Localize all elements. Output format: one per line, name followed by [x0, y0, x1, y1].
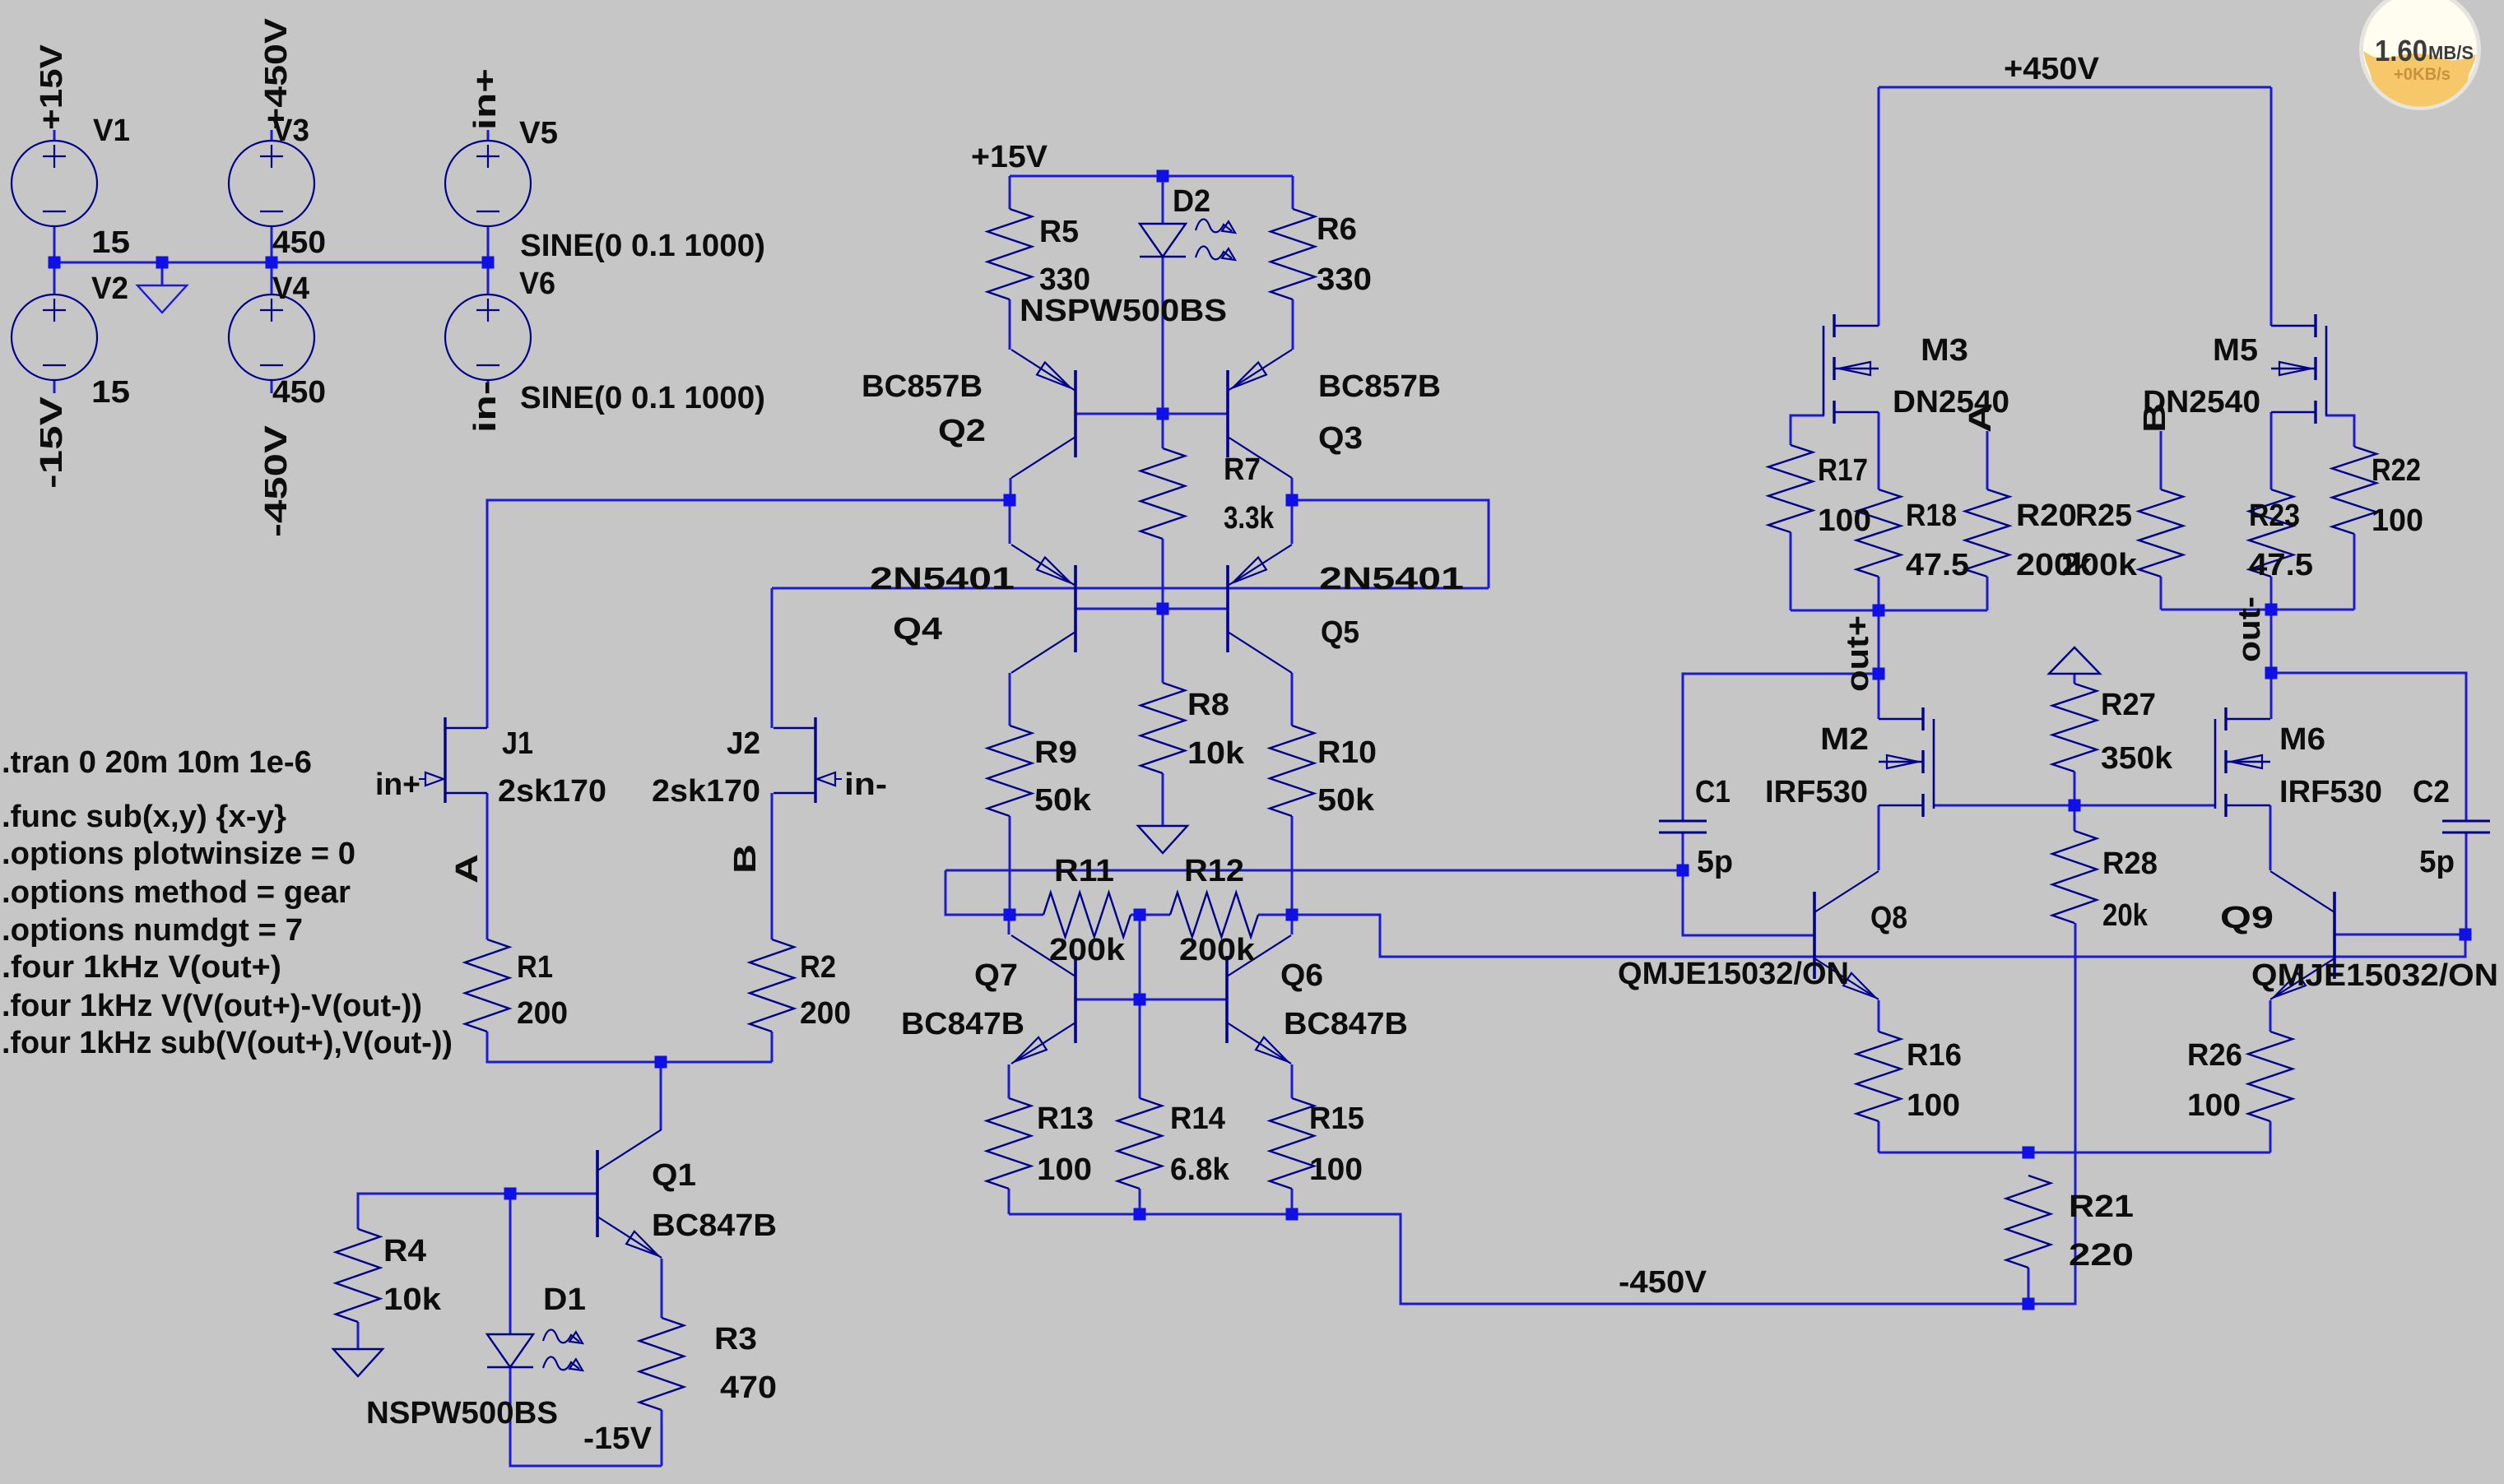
- wire tail to Q1 collector: [660, 1062, 662, 1129]
- wire R25 bottom: [2160, 577, 2163, 610]
- MOSFET M2 IRF530: [1879, 707, 1934, 817]
- svg-text:+0KB/s: +0KB/s: [2394, 65, 2451, 84]
- resistor R4 10k: [336, 1229, 380, 1322]
- junction R15 rail: [1286, 1208, 1298, 1221]
- svg-text:BC857B: BC857B: [862, 369, 983, 404]
- junction C2 drive: [2460, 929, 2472, 941]
- svg-text:NSPW500BS: NSPW500BS: [366, 1396, 558, 1431]
- svg-text:R7: R7: [1224, 452, 1261, 487]
- svg-text:6.8k: 6.8k: [1170, 1152, 1230, 1187]
- wire R7 leads: [1162, 414, 1164, 448]
- capacitor C1 5p: [1659, 821, 1707, 832]
- junction Q6 Q7 base node: [1134, 994, 1146, 1006]
- svg-text:BC857B: BC857B: [1318, 369, 1441, 404]
- svg-text:Q8: Q8: [1870, 901, 1907, 935]
- junction cascode node B side: [1286, 494, 1298, 507]
- wire R11 R12 mid leads: [1131, 914, 1170, 916]
- svg-text:350k: 350k: [2101, 741, 2173, 776]
- voltage source V6: [445, 294, 531, 380]
- svg-text:1.60: 1.60: [2375, 34, 2427, 67]
- svg-text:R6: R6: [1317, 212, 1357, 247]
- junction R12 R10: [1286, 909, 1298, 921]
- resistor R5 330: [987, 209, 1032, 299]
- wire Q6 base: [1140, 999, 1227, 1001]
- ground at V bus: [137, 285, 187, 313]
- svg-text:2sk170: 2sk170: [498, 774, 606, 809]
- junction cascode node A side: [1004, 494, 1016, 507]
- wire M3 gate to R17: [1791, 415, 1824, 445]
- junction R21 top: [2023, 1147, 2035, 1159]
- transistor Q6 BC847B: [1227, 935, 1291, 1064]
- svg-text:10k: 10k: [383, 1282, 442, 1317]
- junction R21 bottom: [2023, 1298, 2035, 1310]
- voltage source V1: [12, 141, 97, 226]
- svg-text:M3: M3: [1921, 333, 1968, 368]
- svg-text:R10: R10: [1317, 735, 1377, 770]
- junction Q1 base node: [504, 1188, 517, 1200]
- svg-text:V5: V5: [519, 116, 558, 151]
- resistor R14 6.8k: [1117, 1098, 1162, 1189]
- wire R28 top lead: [2074, 805, 2076, 831]
- wire left row bottom: [1791, 610, 1987, 612]
- transistor Q3 BC857B: [1228, 350, 1292, 478]
- LED D1 NSPW500BS: [487, 1329, 583, 1370]
- transistor Q5 2N5401: [1228, 545, 1292, 673]
- svg-text:R25: R25: [2075, 499, 2132, 533]
- svg-text:200: 200: [517, 996, 568, 1031]
- svg-text:R11: R11: [1054, 854, 1114, 888]
- wire Q1 emitter to R3: [661, 1259, 663, 1318]
- svg-text:Q1: Q1: [652, 1158, 696, 1193]
- svg-text:R13: R13: [1037, 1101, 1094, 1136]
- JFET J1 2sk170: [445, 717, 487, 803]
- svg-text:R9: R9: [1034, 735, 1077, 770]
- svg-text:Q5: Q5: [1321, 615, 1359, 650]
- resistor R25 200k: [2139, 489, 2183, 577]
- wire J2 drain up: [771, 588, 773, 728]
- svg-text:R5: R5: [1039, 215, 1079, 249]
- wire R22 bottom: [2353, 534, 2356, 610]
- svg-text:D2: D2: [1173, 184, 1210, 219]
- svg-text:V3: V3: [272, 114, 309, 148]
- svg-text:.options plotwinsize = 0: .options plotwinsize = 0: [2, 837, 355, 871]
- junction R27 R28 gates: [2069, 800, 2081, 812]
- svg-text:.four 1kHz V(V(out+)-V(out-)): .four 1kHz V(V(out+)-V(out-)): [2, 989, 422, 1023]
- svg-text:15: 15: [91, 375, 130, 410]
- wire J1 source to R1: [486, 793, 489, 939]
- transistor Q4 2N5401: [1011, 545, 1075, 673]
- wire out+ to C1: [1683, 674, 1879, 821]
- wire V1 top stub: [53, 130, 56, 141]
- wire bottom mid rail: [1009, 923, 2075, 1304]
- svg-text:B: B: [728, 844, 763, 874]
- svg-text:3.3k: 3.3k: [1224, 501, 1275, 536]
- wire R23 bottom: [2270, 577, 2273, 610]
- svg-text:V1: V1: [93, 114, 130, 148]
- resistor R23 47.5: [2249, 489, 2293, 577]
- wire Q5 emitter lead: [1291, 500, 1294, 544]
- svg-text:B: B: [2138, 403, 2172, 433]
- wire R27 bottom lead: [2074, 772, 2076, 805]
- svg-text:in+: in+: [375, 768, 420, 802]
- wire Q2 collector lead: [1010, 478, 1012, 500]
- wire row to Q8 corner: [1292, 915, 2465, 957]
- wire D2 anode: [1162, 176, 1164, 224]
- svg-text:-15V: -15V: [35, 396, 69, 489]
- svg-text:Q6: Q6: [1280, 958, 1323, 993]
- wire long C1 drive wire: [945, 870, 1683, 872]
- resistor R9 50k: [987, 726, 1032, 816]
- MOSFET M5 DN2540: [2271, 314, 2326, 424]
- svg-text:R8: R8: [1187, 688, 1229, 722]
- junction R7 R8 base node: [1157, 603, 1169, 615]
- resistor R6 330: [1271, 209, 1315, 299]
- svg-text:47.5: 47.5: [1906, 548, 1969, 582]
- wire B flag to R25: [2160, 431, 2163, 489]
- junction V5-V6: [482, 257, 495, 269]
- wire V4 top lead: [271, 262, 273, 294]
- junction R13 rail: [1134, 1208, 1146, 1221]
- transistor Q1 BC847B: [597, 1129, 662, 1258]
- wire Q2 base: [1075, 413, 1163, 415]
- wire D2 cathode to base node: [1162, 257, 1164, 414]
- wire out- drop: [2270, 610, 2273, 673]
- resistor R3 470: [639, 1318, 684, 1410]
- svg-text:R20: R20: [2016, 499, 2077, 533]
- LED D2 NSPW500BS: [1140, 219, 1235, 260]
- input port in+ arrow: [419, 772, 444, 786]
- wire +15V rail: [1010, 175, 1293, 178]
- svg-text:330: 330: [1317, 262, 1372, 297]
- svg-text:200k: 200k: [2061, 548, 2138, 582]
- wire J1 drain to cascode node: [487, 500, 1010, 728]
- svg-text:.tran 0 20m 10m 1e-6: .tran 0 20m 10m 1e-6: [2, 745, 312, 780]
- svg-text:C2: C2: [2413, 775, 2450, 809]
- resistor R16 100: [1856, 1032, 1901, 1121]
- resistor R21 220: [2006, 1176, 2051, 1268]
- svg-text:5p: 5p: [2419, 845, 2455, 879]
- wire Q8 emitter to R16: [1878, 1000, 1880, 1032]
- svg-text:-15V: -15V: [583, 1421, 653, 1456]
- svg-text:in-: in-: [468, 381, 503, 433]
- JFET J2 2sk170: [773, 717, 815, 803]
- junction V1-V2: [49, 257, 61, 269]
- wire M5 drain: [2270, 87, 2273, 326]
- wire C2 to Q9 base: [2334, 934, 2465, 936]
- svg-text:R27: R27: [2101, 688, 2156, 722]
- resistor R7 3.3k: [1141, 448, 1185, 539]
- svg-text:D1: D1: [543, 1282, 586, 1317]
- svg-text:NSPW500BS: NSPW500BS: [1020, 294, 1227, 328]
- wire R8 top lead: [1162, 609, 1164, 683]
- junction Q2 Q3 base node: [1157, 408, 1169, 420]
- wire C1 to Q8 base: [1683, 870, 1814, 935]
- svg-text:R26: R26: [2187, 1038, 2242, 1073]
- svg-text:100: 100: [1818, 503, 1871, 538]
- svg-text:+15V: +15V: [971, 140, 1048, 174]
- svg-text:V4: V4: [272, 271, 309, 306]
- resistor R2 200: [750, 939, 794, 1032]
- svg-text:Q4: Q4: [893, 612, 942, 647]
- wire out+ drop: [1878, 610, 1880, 674]
- transistor Q2 BC857B: [1011, 350, 1075, 478]
- resistor R8 10k: [1141, 683, 1185, 773]
- svg-text:+15V: +15V: [35, 44, 69, 130]
- junction R9 R11: [1004, 909, 1016, 921]
- voltage source V5: [445, 141, 531, 226]
- wire V1 bottom lead: [53, 226, 56, 262]
- wire Q6 emitter to R15: [1291, 1064, 1294, 1098]
- svg-text:in+: in+: [468, 68, 503, 130]
- wire R9 bottom lead: [1009, 816, 1011, 915]
- wire R1 bottom: [487, 1032, 772, 1062]
- svg-text:SINE(0 0.1 1000): SINE(0 0.1 1000): [520, 229, 765, 263]
- svg-text:M2: M2: [1820, 722, 1869, 757]
- input port in- arrow: [817, 772, 842, 786]
- wire R10 bottom lead: [1291, 816, 1294, 915]
- svg-text:100: 100: [1907, 1088, 1960, 1123]
- wire J2 source to R2: [771, 793, 773, 939]
- wire M5 gate to R22: [2325, 415, 2354, 447]
- resistor R12 200k: [1170, 893, 1258, 937]
- svg-text:R4: R4: [383, 1234, 426, 1268]
- svg-text:50k: 50k: [1317, 783, 1375, 818]
- junction R11 R12 mid: [1134, 909, 1146, 921]
- wire M3 drain: [1878, 87, 1880, 326]
- junction tail node: [655, 1056, 667, 1069]
- resistor R26 100: [2248, 1032, 2293, 1121]
- wire A flag to R20: [1986, 431, 1989, 489]
- svg-text:in-: in-: [844, 768, 887, 802]
- wire R18 bottom: [1878, 577, 1880, 610]
- wire Q1 base: [358, 1194, 597, 1229]
- svg-text:.options numdgt = 7: .options numdgt = 7: [2, 913, 303, 948]
- resistor R17 100: [1768, 445, 1813, 532]
- junction out+: [1873, 668, 1885, 680]
- voltage source V4: [229, 294, 314, 380]
- ground at R8: [1138, 826, 1187, 853]
- wire Q3 collector lead: [1291, 478, 1294, 500]
- voltage source V3: [229, 141, 314, 226]
- wire base loop vertical: [1292, 500, 1489, 588]
- wire mid column: [1139, 915, 1141, 1098]
- wire M6 drain: [2270, 673, 2273, 719]
- svg-text:50k: 50k: [1034, 783, 1092, 818]
- wire R5 bottom lead: [1009, 299, 1011, 350]
- svg-text:R23: R23: [2249, 499, 2300, 533]
- wire D1 cathode to rail: [510, 1367, 662, 1466]
- wire R14 bottom: [1139, 1189, 1141, 1214]
- svg-text:R14: R14: [1170, 1101, 1225, 1136]
- bias arrow flag above R27: [2049, 647, 2100, 674]
- wire V2 top lead: [53, 262, 56, 294]
- svg-text:450: 450: [272, 225, 326, 260]
- wire V6 bottom stub: [487, 380, 490, 393]
- resistor R22 100: [2332, 447, 2376, 534]
- svg-text:15: 15: [91, 225, 130, 260]
- svg-text:M6: M6: [2279, 722, 2325, 757]
- resistor R20 200k: [1965, 489, 2009, 577]
- wire R3 bottom: [661, 1410, 663, 1466]
- svg-text:2N5401: 2N5401: [870, 562, 1015, 596]
- svg-text:R12: R12: [1184, 854, 1244, 888]
- wire Q7 collector lead: [1008, 915, 1010, 934]
- wire R5 top lead: [1009, 176, 1011, 209]
- MOSFET M6 IRF530: [2215, 707, 2270, 817]
- svg-text:out+: out+: [1841, 615, 1875, 692]
- transistor Q9 QMJE15032: [2270, 871, 2334, 999]
- svg-text:BC847B: BC847B: [1284, 1007, 1408, 1041]
- wire R16 bottom: [1878, 1121, 1880, 1152]
- svg-text:2N5401: 2N5401: [1319, 562, 1464, 596]
- svg-text:R3: R3: [714, 1322, 757, 1356]
- wire R4 to ground: [357, 1322, 360, 1349]
- wire V3 bottom lead: [271, 226, 273, 262]
- svg-text:.func sub(x,y) {x-y}: .func sub(x,y) {x-y}: [2, 800, 286, 834]
- wire Q4 Q5 base line: [772, 587, 1489, 590]
- svg-text:R17: R17: [1818, 453, 1868, 488]
- svg-text:.options method = gear: .options method = gear: [2, 875, 351, 910]
- voltage source V2: [12, 294, 97, 380]
- transistor Q8 QMJE15032: [1814, 871, 1879, 999]
- wire ground stub at bus: [161, 262, 164, 285]
- wire V6 top lead: [487, 262, 490, 294]
- svg-text:A: A: [1963, 403, 1998, 433]
- wire C1 bottom lead: [1682, 832, 1684, 870]
- wire D1 anode: [509, 1194, 512, 1334]
- wire R21 bottom lead: [2028, 1268, 2030, 1304]
- wire Q9 emitter to R26: [2269, 1000, 2272, 1032]
- svg-text:J2: J2: [727, 726, 760, 761]
- svg-text:+450V: +450V: [2004, 52, 2100, 86]
- wire Q7 base: [1075, 999, 1140, 1001]
- svg-text:QMJE15032/ON: QMJE15032/ON: [2251, 958, 2498, 993]
- wire R20 bottom: [1986, 577, 1989, 610]
- svg-text:R15: R15: [1309, 1101, 1364, 1136]
- resistor R13 100: [987, 1098, 1031, 1189]
- svg-text:R28: R28: [2102, 846, 2158, 881]
- svg-text:100: 100: [1309, 1152, 1363, 1187]
- wire V5 bottom lead: [487, 226, 490, 262]
- svg-text:R21: R21: [2069, 1190, 2134, 1224]
- wire V3 top stub: [271, 130, 273, 141]
- wire drive corner down: [945, 870, 1043, 915]
- svg-text:100: 100: [1037, 1152, 1092, 1187]
- svg-text:Q9: Q9: [2220, 901, 2274, 935]
- wire R15 bottom: [1291, 1189, 1294, 1214]
- svg-text:20k: 20k: [2102, 898, 2149, 933]
- svg-text:-450V: -450V: [259, 424, 294, 537]
- wire V5 top stub: [487, 130, 490, 141]
- resistor R10 50k: [1270, 726, 1314, 816]
- wire M6 source to Q9: [2269, 805, 2272, 870]
- svg-text:.four 1kHz V(out+): .four 1kHz V(out+): [2, 950, 281, 985]
- svg-text:-450V: -450V: [1619, 1265, 1707, 1300]
- wire M2 drain: [1878, 674, 1880, 719]
- resistor R18 47.5: [1856, 489, 1901, 577]
- junction V3-V4: [266, 257, 278, 269]
- svg-text:200: 200: [800, 996, 851, 1031]
- svg-text:A: A: [450, 854, 485, 883]
- wire Q4 collector to R9: [1009, 673, 1011, 726]
- svg-text:M5: M5: [2213, 333, 2258, 368]
- wire M2 source to Q8: [1878, 805, 1880, 870]
- svg-text:.four 1kHz sub(V(out+),V(out-): .four 1kHz sub(V(out+),V(out-)): [2, 1026, 453, 1060]
- wire C2 bottom lead: [2465, 832, 2468, 934]
- svg-text:100: 100: [2372, 503, 2423, 538]
- MOSFET M3 DN2540: [1823, 314, 1879, 424]
- ground at R4: [333, 1349, 383, 1376]
- svg-text:J1: J1: [502, 726, 533, 761]
- svg-text:470: 470: [720, 1370, 777, 1405]
- svg-text:R1: R1: [517, 950, 553, 985]
- wire Q6 collector lead: [1291, 915, 1294, 934]
- svg-text:R2: R2: [800, 950, 836, 985]
- svg-text:Q3: Q3: [1318, 421, 1363, 456]
- wire Q5 collector to R10: [1291, 673, 1294, 726]
- junction out-: [2265, 667, 2278, 679]
- svg-text:MB/S: MB/S: [2428, 42, 2474, 63]
- wire R12 right lead: [1258, 914, 1292, 916]
- wire M3 source to R18: [1878, 412, 1880, 489]
- wire R2 bottom: [771, 1032, 773, 1062]
- junction C1 drive: [1677, 865, 1689, 877]
- resistor R27 350k: [2052, 684, 2097, 772]
- junction ground tap: [156, 257, 169, 269]
- wire Q4 emitter lead: [1009, 500, 1011, 544]
- wire Q3 base: [1163, 413, 1228, 415]
- wire emitter row: [1879, 1152, 2270, 1154]
- svg-text:R18: R18: [1906, 499, 1957, 533]
- svg-text:330: 330: [1039, 262, 1090, 297]
- svg-text:10k: 10k: [1187, 736, 1245, 771]
- wire M5 source to R23: [2270, 412, 2273, 489]
- screen overlay badge: [2359, 0, 2481, 110]
- wire V4 bottom stub: [271, 380, 273, 393]
- svg-text:BC847B: BC847B: [901, 1007, 1024, 1041]
- transistor Q7 BC847B: [1011, 935, 1075, 1064]
- svg-text:5p: 5p: [1697, 845, 1733, 879]
- wire out- to C2: [2271, 673, 2466, 821]
- svg-text:SINE(0 0.1 1000): SINE(0 0.1 1000): [520, 381, 765, 415]
- svg-text:2sk170: 2sk170: [652, 774, 760, 809]
- capacitor C2 5p: [2442, 821, 2490, 832]
- svg-text:V6: V6: [519, 267, 555, 301]
- wire R26 bottom: [2269, 1121, 2272, 1152]
- junction D2 top: [1157, 170, 1169, 183]
- wire +450V rail: [1879, 86, 2271, 89]
- junction R23 bottom: [2265, 604, 2278, 616]
- wire V bus: [54, 262, 488, 264]
- svg-text:R22: R22: [2372, 453, 2421, 488]
- wire R13 bottom: [1008, 1189, 1010, 1214]
- junction R18 bottom: [1873, 605, 1885, 617]
- wire R6 top lead: [1292, 176, 1294, 209]
- wire R8 bottom lead: [1162, 773, 1164, 826]
- svg-text:Q7: Q7: [974, 958, 1018, 993]
- svg-text:QMJE15032/ON: QMJE15032/ON: [1618, 957, 1849, 991]
- wire R6 bottom lead: [1292, 299, 1294, 350]
- svg-text:47.5: 47.5: [2249, 548, 2313, 582]
- svg-text:220: 220: [2069, 1238, 2134, 1273]
- svg-text:IRF530: IRF530: [2279, 775, 2382, 809]
- svg-text:BC847B: BC847B: [652, 1208, 777, 1243]
- svg-text:IRF530: IRF530: [1765, 775, 1868, 809]
- wire R7 bottom lead: [1162, 539, 1164, 609]
- svg-text:R16: R16: [1907, 1038, 1962, 1073]
- wire R27 top lead: [2074, 674, 2076, 684]
- wire R17 bottom: [1790, 532, 1792, 610]
